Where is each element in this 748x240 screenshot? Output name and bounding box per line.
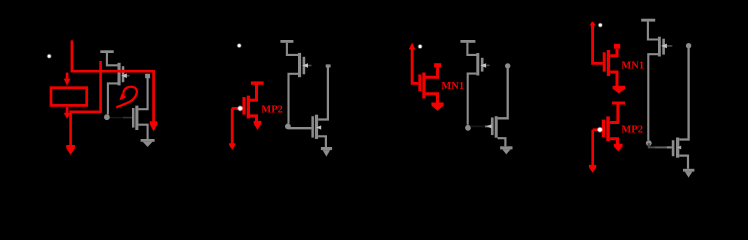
PMOS M1 body arrow: [121, 73, 127, 78]
arrow out of resistor R1 bottom: [66, 107, 69, 113]
wire: NMOS source to ground: [138, 125, 147, 140]
wire: M2 gate to node (dim + bright): [649, 143, 655, 147]
wire: M1 gate node down to M2 drain: [679, 48, 688, 140]
MP2 gate bubble (white): [597, 127, 603, 133]
arrowhead down (source path): [254, 121, 262, 130]
NMOS M2 channel bar: [135, 106, 138, 130]
NMOS M2 body arrow: [676, 146, 681, 150]
arrowhead down (source path): [614, 144, 623, 152]
wire: PMOS M1 source down to gate node of M2: [289, 74, 299, 124]
wire: pad down to MN1 gate: [412, 49, 418, 84]
NMOS M2 gate bar: [311, 116, 314, 137]
wire: NMOS drain up to sense node: [138, 77, 147, 109]
MP2 drain cap (red tee): [612, 102, 625, 105]
node junction dot (gray): [646, 140, 652, 146]
PMOS MP2 channel bar: [606, 116, 610, 141]
pad terminal dot (white): [47, 54, 52, 59]
svg-text:(c): (c): [455, 192, 468, 206]
svg-text:MN1: MN1: [621, 61, 644, 72]
PMOS M1 gate bar: [481, 58, 484, 72]
NMOS MN1 gate bar: [603, 52, 606, 71]
wire: gate link to NMOS (dim): [110, 117, 123, 119]
VDD rail stub (gray tee): [641, 19, 655, 22]
drain stub cap (red square): [614, 44, 620, 49]
NMOS M2 channel bar: [315, 115, 318, 139]
wire: red path down from gate node: [231, 108, 234, 143]
wire: MP2 source lead: [250, 116, 257, 121]
VDD rail stub (gray tee): [280, 40, 293, 43]
current loop annotation (red curl arrow): [116, 87, 137, 108]
PMOS M1 gate bar: [303, 57, 306, 75]
arrowhead MN1 source to MP2 (red): [613, 86, 626, 94]
svg-text:(a): (a): [100, 192, 113, 206]
wire: PMOS M1 source down to M2 gate node: [468, 74, 477, 125]
NMOS MN1 gate bar: [418, 74, 421, 91]
wire: M1 source long drop to M2 gate node: [648, 54, 658, 140]
NMOS M2 gate bar: [491, 118, 494, 136]
wire: VDD to PMOS M1 drain: [107, 53, 118, 66]
wire: MN1 drain lead up to cap: [610, 49, 617, 56]
svg-text:MN1: MN1: [441, 81, 464, 92]
NMOS M2 gate bar: [132, 108, 135, 128]
ground: [500, 146, 512, 149]
wire: M2 source to ground: [679, 156, 688, 169]
pad terminal dot (white): [598, 23, 603, 28]
wire: M2 source to ground: [498, 138, 506, 146]
NMOS M2 body arrow: [316, 125, 321, 129]
PMOS MP2 channel bar: [247, 96, 250, 119]
wire: red path down to NMOS ground: [152, 70, 155, 122]
pad terminal dot (white): [237, 43, 242, 48]
wire: red ESD current path from VDD down and right: [72, 40, 154, 71]
svg-text:MP2: MP2: [621, 125, 643, 136]
svg-text:(b): (b): [272, 192, 286, 206]
wire: M2 gate to node: [288, 127, 312, 129]
PMOS M1 channel bar: [118, 63, 121, 86]
PMOS MP2 gate bar: [602, 120, 605, 137]
arrow into resistor R1 top: [66, 73, 69, 79]
pad terminal dot (white): [418, 44, 423, 49]
node dot on gate line (gray): [505, 63, 510, 68]
NMOS M2 body arrow: [486, 124, 491, 128]
NMOS M2 gate bar: [672, 140, 675, 156]
MP2 gate bubble (white): [237, 105, 243, 111]
wire: MN1 drain lead up to cap: [426, 67, 438, 77]
node junction dot (gray): [465, 125, 471, 131]
resistor R1 (red box): [51, 88, 87, 106]
VDD stub cap of MP2 (red): [251, 81, 264, 84]
node cap (gray tee): [145, 74, 150, 79]
PMOS M1 body arrow: [480, 63, 486, 67]
PMOS M1 channel bar: [658, 37, 661, 57]
arrowhead to ground rail (red): [431, 103, 443, 111]
VDD rail stub (gray tee): [460, 40, 475, 43]
PMOS M1 gate bar: [662, 39, 665, 55]
node junction dot (gray): [285, 124, 291, 130]
svg-text:(d): (d): [640, 192, 654, 206]
arrowhead down to VSS pad: [589, 165, 596, 173]
wire: MP2 drain stem: [250, 85, 257, 101]
arrowhead to bottom rail: [66, 145, 75, 155]
wire: MP2 drain stem: [610, 105, 618, 123]
wire: MP2 source lead: [610, 139, 618, 144]
wire: MN1 source lead down: [610, 72, 617, 86]
wire: VDD to PMOS M1 drain: [287, 43, 298, 55]
NMOS M2 channel bar: [676, 138, 679, 158]
wire: M1 gate node down to M2 drain: [498, 68, 508, 119]
wire: M1 gate node down to M2 drain: [318, 67, 328, 120]
VDD rail stub (gray tee): [100, 50, 113, 53]
wire: MN1 source lead: [426, 94, 438, 103]
PMOS M1 body arrow: [302, 63, 308, 68]
node cap (gray tee) on gate line: [326, 64, 331, 67]
wire: M2 gate to node (dim): [470, 125, 485, 127]
wire: MP2 gate to pad: [232, 107, 243, 110]
pad injection arrow (red, pointing up): [409, 43, 416, 50]
PMOS M1 gate bar: [122, 66, 125, 82]
ground: [683, 169, 694, 172]
wire: pad down to MN1 gate: [593, 26, 603, 63]
wire: M2 source to ground: [318, 136, 326, 147]
PMOS MP2 gate bar: [242, 97, 245, 115]
wire: VDD to M1 drain: [648, 22, 658, 40]
arrowhead down (gate path): [229, 143, 235, 150]
wire: PMOS source to mirror node: [108, 83, 118, 114]
arrowhead into ground node: [150, 121, 158, 131]
wire: MP2 gate left and down: [593, 128, 602, 131]
PMOS M1 channel bar: [298, 53, 301, 77]
PMOS M1 channel bar: [476, 53, 479, 76]
drain stub cap (red tee): [434, 63, 441, 67]
ground: [141, 139, 155, 142]
PMOS M1 body arrow: [661, 44, 667, 49]
pad injection arrow (red, pointing up): [591, 22, 594, 28]
NMOS MN1 channel bar: [607, 50, 610, 76]
NMOS MN1 channel bar: [422, 73, 425, 99]
NMOS M2 channel bar: [495, 116, 498, 138]
node dot on gate line (gray): [686, 43, 691, 48]
node junction dot (gray): [104, 114, 110, 120]
wire: red feedback branch from gate node: [71, 61, 101, 145]
ground: [321, 147, 332, 150]
svg-text:MP2: MP2: [261, 104, 283, 115]
wire: VDD to PMOS M1 drain: [467, 43, 476, 55]
